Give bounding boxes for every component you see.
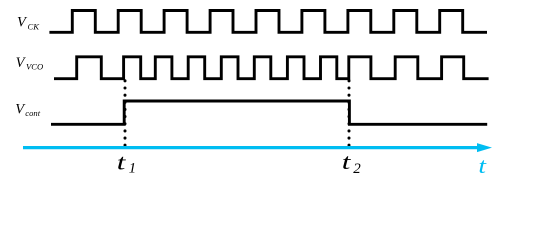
label V_cont	[15, 101, 41, 118]
svg-text:V: V	[17, 15, 28, 31]
svg-text:VCO: VCO	[26, 61, 43, 71]
svg-text:t: t	[478, 153, 487, 178]
svg-text:t: t	[342, 149, 352, 174]
waveform V_VCO	[54, 57, 489, 79]
label V_CK	[17, 15, 40, 32]
time axis	[23, 143, 492, 152]
label t2	[342, 149, 361, 177]
svg-text:CK: CK	[28, 21, 41, 31]
label t1	[117, 149, 136, 176]
waveform V_cont	[51, 101, 487, 124]
svg-text:1: 1	[129, 161, 137, 177]
svg-text:t: t	[117, 149, 127, 174]
dotted marker line t1	[124, 81, 127, 148]
svg-text:2: 2	[353, 161, 361, 177]
dotted marker line t2	[348, 81, 351, 148]
waveform V_CK	[49, 11, 487, 33]
svg-text:V: V	[16, 55, 27, 71]
svg-text:cont: cont	[25, 108, 40, 118]
label V_VCO	[16, 55, 44, 71]
